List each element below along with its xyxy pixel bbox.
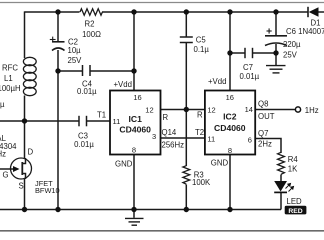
svg-text:16: 16 [226, 93, 234, 102]
svg-text:+Vdd: +Vdd [208, 77, 226, 86]
svg-text:16: 16 [133, 93, 141, 102]
svg-text:10µ: 10µ [68, 46, 82, 55]
svg-text:3: 3 [152, 132, 156, 141]
svg-text:R2: R2 [85, 19, 95, 28]
svg-text:T2: T2 [195, 128, 204, 137]
svg-text:D1: D1 [311, 18, 321, 27]
svg-text:8: 8 [228, 146, 232, 155]
svg-text:CD4060: CD4060 [214, 123, 246, 133]
svg-text:T1: T1 [97, 111, 106, 120]
svg-text:25V: 25V [283, 50, 298, 59]
svg-text:S: S [19, 182, 24, 191]
svg-text:R: R [163, 113, 169, 122]
svg-text:Q7: Q7 [258, 129, 268, 138]
svg-text:12: 12 [145, 105, 153, 114]
svg-text:Q14: Q14 [162, 128, 177, 137]
svg-text:+Vdd: +Vdd [114, 80, 132, 89]
svg-text:100Ω: 100Ω [82, 30, 101, 39]
svg-text:1K: 1K [288, 165, 298, 174]
svg-text:µ: µ [0, 100, 5, 109]
svg-text:1Hz: 1Hz [305, 106, 319, 115]
svg-text:C6 1N4007: C6 1N4007 [286, 27, 324, 36]
svg-text:BFW10: BFW10 [35, 186, 60, 195]
svg-text:14: 14 [245, 105, 253, 114]
svg-text:100K: 100K [192, 178, 211, 187]
svg-text:C5: C5 [196, 35, 207, 44]
svg-text:256Hz: 256Hz [162, 141, 185, 150]
svg-text:100µH: 100µH [0, 84, 21, 93]
svg-text:OUT: OUT [258, 112, 275, 121]
svg-text:C7: C7 [243, 63, 253, 72]
svg-text:0.1µ: 0.1µ [194, 45, 210, 54]
svg-text:IC1: IC1 [129, 114, 143, 124]
svg-text:GND: GND [211, 159, 229, 168]
svg-text:RFC: RFC [2, 63, 18, 72]
svg-text:0.01µ: 0.01µ [240, 72, 260, 81]
svg-text:G: G [3, 171, 9, 180]
svg-text:220µ: 220µ [283, 40, 301, 49]
svg-text:D: D [28, 148, 34, 157]
svg-text:6: 6 [248, 135, 252, 144]
svg-text:Q8: Q8 [258, 99, 268, 108]
svg-text:MHz: MHz [0, 150, 6, 159]
svg-text:CD4060: CD4060 [119, 125, 151, 135]
svg-text:LED: LED [287, 197, 303, 206]
svg-text:8: 8 [132, 145, 136, 154]
svg-text:0.01µ: 0.01µ [74, 140, 94, 149]
svg-text:25V: 25V [68, 56, 83, 65]
svg-text:11: 11 [207, 134, 215, 143]
svg-text:GND: GND [115, 160, 133, 169]
svg-text:L1: L1 [4, 74, 13, 83]
svg-text:2Hz: 2Hz [258, 140, 272, 149]
svg-text:12: 12 [207, 105, 215, 114]
svg-text:0.01µ: 0.01µ [77, 87, 97, 96]
svg-text:R4: R4 [288, 155, 299, 164]
svg-text:IC2: IC2 [223, 112, 237, 122]
svg-text:R: R [197, 111, 203, 120]
svg-text:RED: RED [288, 208, 302, 215]
